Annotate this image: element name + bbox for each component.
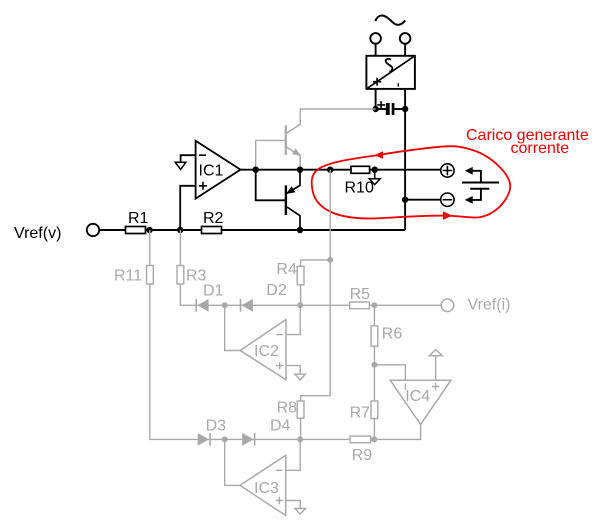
svg-text:R2: R2 — [203, 210, 224, 227]
wire D3 row y439 — [198, 438, 350, 440]
node capacitor left — [372, 106, 378, 112]
diode D4 — [242, 418, 290, 446]
node R3-IC1+ — [177, 227, 183, 233]
resistor R6 — [371, 326, 378, 346]
resistor R8 — [277, 399, 304, 439]
node R1-R11 — [146, 227, 152, 233]
wire main input rail y230 — [99, 229, 405, 231]
op-amp IC4 — [374, 350, 451, 440]
resistor R10 — [351, 166, 370, 173]
net arrow at R10 right node — [374, 173, 376, 179]
svg-text:R11: R11 — [114, 268, 142, 285]
svg-text:D4: D4 — [270, 418, 291, 435]
diode D3 — [198, 418, 226, 446]
red arrow top (left) — [375, 151, 384, 159]
red arrow bottom (right) — [443, 211, 453, 220]
svg-text:R8: R8 — [277, 399, 298, 416]
svg-text:IC1: IC1 — [199, 163, 224, 180]
AC-DC converter U1 box — [366, 56, 415, 89]
node R4 top — [327, 257, 333, 263]
resistor R7 — [371, 401, 378, 419]
svg-text:R5: R5 — [350, 286, 371, 303]
svg-text:IC4: IC4 — [405, 388, 430, 405]
resistor R11 — [147, 266, 154, 285]
node emitters — [297, 167, 303, 173]
wire gray supply from cap node to Q1 collector — [300, 109, 375, 118]
svg-text:D3: D3 — [206, 418, 227, 435]
input terminal Vref(v) — [87, 224, 99, 236]
node R10 left — [327, 167, 333, 173]
node capacitor right — [402, 106, 408, 112]
svg-text:R1: R1 — [128, 210, 149, 227]
svg-text:R4: R4 — [276, 261, 297, 278]
svg-text:IC3: IC3 — [254, 480, 279, 497]
wire R3 branch — [180, 230, 195, 305]
svg-text:D2: D2 — [266, 282, 287, 299]
capacitor C1 plus sign — [377, 101, 385, 109]
diode D1 — [195, 283, 223, 312]
op-amp IC2 — [225, 305, 306, 380]
node D1-D2 — [222, 302, 228, 308]
resistor R1 — [126, 227, 146, 234]
node R10 right — [372, 167, 378, 173]
wire rectifier row y305 — [196, 304, 442, 306]
svg-text:corrente: corrente — [511, 140, 570, 157]
wire converter right output down to rail — [404, 89, 406, 230]
svg-text:R6: R6 — [382, 326, 403, 343]
resistor R3 — [177, 266, 184, 285]
resistor R9 — [350, 436, 371, 443]
wire R11 branch — [150, 230, 198, 439]
terminal plus — [441, 164, 454, 177]
svg-text:Vref(v): Vref(v) — [14, 225, 61, 242]
terminal minus — [441, 193, 454, 206]
op-amp IC3 — [225, 439, 306, 515]
red annotation loop — [312, 146, 511, 218]
svg-text:Vref(i): Vref(i) — [468, 297, 511, 314]
wire R6-R7 vertical — [373, 305, 375, 439]
svg-text:R9: R9 — [352, 447, 373, 464]
node D3-D4 — [222, 436, 228, 442]
resistor R5 — [350, 302, 370, 309]
transistor Q1 (gray, inactive) — [256, 118, 301, 170]
node D2-R4-R5 — [297, 302, 303, 308]
node R6-R7 junction — [371, 362, 377, 368]
op-amp IC1 — [175, 141, 240, 230]
AC input terminal right — [400, 33, 411, 44]
svg-text:D1: D1 — [203, 283, 224, 300]
svg-text:R7: R7 — [350, 404, 371, 421]
svg-text:IC2: IC2 — [254, 343, 279, 360]
terminal Vref(i) — [441, 299, 454, 312]
resistor R4 — [276, 260, 330, 305]
node R5-R6 — [371, 302, 377, 308]
wire feedback vertical x330 — [301, 170, 331, 401]
resistor R2 — [202, 227, 222, 234]
node Q2 collector — [297, 227, 303, 233]
transistor Q2 — [256, 170, 300, 230]
wire converter left output down — [375, 89, 377, 109]
wire terminal right to converter — [404, 44, 406, 56]
node D4-R8 — [297, 436, 303, 442]
node R9-R7 — [371, 436, 377, 442]
node IC1 output — [253, 167, 259, 173]
AC source tilde — [375, 16, 405, 25]
diode D2 — [240, 282, 287, 312]
wire terminal left to converter — [375, 44, 377, 56]
wire to minus terminal — [405, 199, 441, 201]
capacitor C1 — [376, 103, 406, 115]
svg-text:R10: R10 — [345, 180, 374, 197]
battery load B1 — [462, 167, 499, 204]
wire IC1 output rail y170 — [241, 169, 441, 171]
AC input terminal left — [370, 33, 381, 44]
node minus rail — [402, 197, 408, 203]
